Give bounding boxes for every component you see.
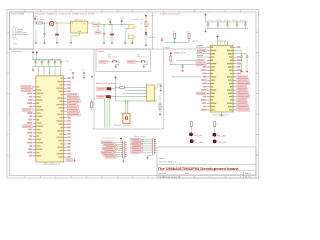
svg-text:+3V3: +3V3 xyxy=(120,18,124,20)
wire crystal power down xyxy=(115,80,117,88)
wire down to C2 xyxy=(56,23,58,34)
switch SW1 xyxy=(112,60,117,62)
vertical wire bus c xyxy=(109,99,111,128)
wire fuse to D1 xyxy=(43,22,50,24)
ground under R osc2 xyxy=(159,113,161,115)
svg-text:4: 4 xyxy=(117,11,118,13)
svg-text:USB Connections: USB Connections xyxy=(161,12,181,15)
svg-text:4: 4 xyxy=(117,177,118,179)
svg-text:TX_LED: TX_LED xyxy=(194,142,204,144)
junction at C4 xyxy=(111,24,112,25)
svg-text:mini USB: mini USB xyxy=(11,13,25,15)
ground far right deco xyxy=(91,76,93,78)
resistor R pullup NRST xyxy=(170,56,172,61)
svg-text:SW_Push: SW_Push xyxy=(108,57,117,59)
section divider horizontal y49 xyxy=(10,48,204,50)
wire usb rail xyxy=(165,41,189,43)
wire to crystal box a xyxy=(124,101,126,113)
resistor R usb2 xyxy=(174,33,176,38)
ground under C2 xyxy=(56,42,58,44)
svg-text:SW_Push: SW_Push xyxy=(137,57,146,59)
wire VBUS to fuse xyxy=(34,21,36,23)
wire deco rail bottom xyxy=(33,66,61,68)
MCU U1 right net labels xyxy=(67,77,70,79)
svg-text:C?: C? xyxy=(246,48,248,50)
wire SWD row2 xyxy=(111,96,114,98)
jumper JP2 xyxy=(128,35,134,39)
wire PWR LED down xyxy=(145,18,147,22)
svg-text:+3V3: +3V3 xyxy=(107,19,111,21)
net label BOOT right xyxy=(196,59,205,62)
svg-text:100n: 100n xyxy=(65,61,69,63)
power flag PWR LED xyxy=(145,15,147,18)
svg-text:U?: U? xyxy=(48,72,50,74)
svg-text:C?: C? xyxy=(82,70,84,72)
wire regulator output xyxy=(88,22,93,24)
section box mini-USB xyxy=(10,12,34,49)
svg-text:C?: C? xyxy=(70,70,72,72)
svg-text:R?: R? xyxy=(162,107,164,109)
wire R_nrst xyxy=(91,99,93,102)
power flag VDD deco xyxy=(32,51,34,54)
border frame inner xyxy=(10,12,257,176)
wire osc row1 xyxy=(116,87,120,89)
svg-text:100n 100n 100n 100n: 100n 100n 100n 100n xyxy=(34,60,60,62)
power flag NRST pullup xyxy=(170,52,172,55)
regulator U2 body xyxy=(71,21,88,33)
wire SW1 to ground xyxy=(118,61,120,63)
svg-text:Left side conn: Left side conn xyxy=(101,137,115,140)
junctions deco rail xyxy=(32,59,33,60)
wire SW1 gnd link xyxy=(116,64,119,66)
junction row y77 xyxy=(172,76,173,77)
svg-text:Id: 1/1: Id: 1/1 xyxy=(245,177,251,179)
svg-text:+3V3: +3V3 xyxy=(150,16,154,18)
net label at U1 bottom xyxy=(66,159,73,162)
MCU U1 right pins xyxy=(64,77,67,79)
svg-text:KiCad E.D.A. kicad 5.1.6: KiCad E.D.A. kicad 5.1.6 xyxy=(159,176,182,179)
svg-text:VBUS: VBUS xyxy=(33,16,39,18)
wire to crystal box b xyxy=(127,101,129,113)
net label BOOT0 at SW2 xyxy=(127,60,136,63)
wire pwr led xyxy=(145,27,147,33)
MCU U3 right pins xyxy=(233,46,236,48)
svg-text:3: 3 xyxy=(86,177,87,179)
wire J3 power xyxy=(120,140,122,143)
LED D2 xyxy=(189,133,193,137)
wire deco rail top xyxy=(32,54,34,59)
ground under JP1 xyxy=(124,42,126,44)
crystal X1 symbol xyxy=(125,116,127,120)
wire JP1 to ground xyxy=(125,28,127,33)
MCU U3 left net labels xyxy=(196,46,207,48)
capacitor C1 xyxy=(43,34,46,35)
fuse F1 xyxy=(37,22,43,24)
svg-text:J?: J? xyxy=(135,27,137,29)
vertical wire bus a xyxy=(104,99,106,128)
connector J1 pin texts xyxy=(17,29,23,30)
svg-text:8MHz crystal: 8MHz crystal xyxy=(114,124,131,127)
svg-text:1k: 1k xyxy=(149,24,151,26)
switch SW2 xyxy=(141,60,146,62)
svg-text:GND: GND xyxy=(13,43,18,45)
resistor R_nrst xyxy=(91,102,93,108)
wire label stub xyxy=(97,26,99,31)
capacitor C4 electrolytic xyxy=(110,33,113,35)
net label NRST right xyxy=(196,63,206,66)
svg-text:3: 3 xyxy=(86,11,87,13)
wire down to C3 xyxy=(103,25,105,34)
svg-text:STM32F103RBTx: STM32F103RBTx xyxy=(43,164,60,166)
net label SWDIO xyxy=(97,87,107,90)
LED D pwr xyxy=(145,32,147,35)
wire flag b down xyxy=(121,23,123,25)
net label NRST at SW1 xyxy=(99,60,108,63)
wire C2 to ground xyxy=(56,35,58,41)
capacitor C osc xyxy=(160,84,162,86)
border frame outer xyxy=(7,10,259,179)
resistor R usb3 xyxy=(188,33,190,38)
wire cap col b xyxy=(236,53,247,55)
svg-text:Boot select: Boot select xyxy=(134,135,147,138)
wire pullup down xyxy=(170,54,172,57)
capacitor C ua xyxy=(240,56,243,57)
wire SW2 to ground xyxy=(146,61,148,63)
wire osc row3 xyxy=(122,93,144,95)
wire BOOT row xyxy=(176,60,196,62)
MCU U1 left net labels xyxy=(21,86,33,89)
power flag VBUS xyxy=(34,18,36,21)
net label below output xyxy=(95,31,101,34)
connector J4 wires xyxy=(141,139,152,141)
wire horizontal y101 xyxy=(116,100,158,102)
regulator ground pin wire xyxy=(78,33,80,36)
svg-text:power sel: power sel xyxy=(133,18,144,21)
wire JP2 to ground xyxy=(131,39,133,42)
wire label to SW2 xyxy=(136,61,141,63)
MCU U1 top power wires xyxy=(38,67,40,76)
wire osc2 xyxy=(159,95,161,104)
power flag J3 xyxy=(120,137,122,140)
ground under C1 xyxy=(43,42,45,44)
wire down to C4 xyxy=(111,25,113,34)
ground under C3 xyxy=(103,42,105,44)
svg-text:File: the_1986.sch: File: the_1986.sch xyxy=(159,161,177,164)
svg-text:USB_OTG: USB_OTG xyxy=(13,38,18,40)
net label +3V3 on output xyxy=(93,23,101,26)
section divider vertical x94 xyxy=(93,49,95,129)
power flag +3V3 a xyxy=(109,21,111,24)
wire osc out xyxy=(155,87,158,89)
svg-text:The 1986A/STM32F00 Development: The 1986A/STM32F00 Development board xyxy=(158,167,239,171)
resistor R osc2 xyxy=(159,104,161,110)
svg-text:Rev: 1: Rev: 1 xyxy=(245,173,252,175)
svg-text:Size: A4: Size: A4 xyxy=(159,172,167,175)
svg-text:8: 8 xyxy=(240,11,241,13)
junction at C2 xyxy=(56,22,57,23)
wire osc row2 xyxy=(125,90,144,92)
power flag right deco xyxy=(205,14,207,17)
MCU U1 bottom wires xyxy=(45,162,47,165)
resistor R led1 xyxy=(190,122,192,127)
resistor R pwrled xyxy=(145,22,147,27)
svg-text:R?: R? xyxy=(120,84,122,86)
resistor R osc xyxy=(120,87,125,89)
ground under C vbat xyxy=(72,77,74,79)
connector J3 header xyxy=(122,141,127,159)
svg-text:Sheet: /: Sheet: / xyxy=(159,157,167,160)
crystal X1 highlight box xyxy=(123,113,130,123)
ground at SW2 xyxy=(143,65,145,67)
wire NRST to MCU xyxy=(171,64,196,66)
ground right of U1 bottom xyxy=(74,158,76,160)
LED D5 xyxy=(213,140,217,144)
svg-text:PWR_LED: PWR_LED xyxy=(194,135,204,137)
MCU U3 top power wires xyxy=(217,38,219,41)
resistor R led2 xyxy=(214,122,216,127)
wire C4 to ground xyxy=(111,35,113,41)
net label SWCLK xyxy=(97,95,106,98)
junction usb3 xyxy=(188,40,189,41)
LED D4 xyxy=(213,133,217,137)
svg-text:J?: J? xyxy=(135,37,137,39)
svg-text:R?: R? xyxy=(141,24,143,26)
svg-text:PWR_LED: PWR_LED xyxy=(148,37,156,39)
junction at C3 xyxy=(103,24,104,25)
MCU U3 body xyxy=(210,45,233,112)
connector J1 body xyxy=(12,28,16,38)
wire label to SW1 xyxy=(108,61,112,63)
ground under VBUS input xyxy=(35,30,37,42)
svg-text:Date:: Date: xyxy=(185,172,190,175)
MCU U3 power flag xyxy=(217,35,219,38)
svg-text:8: 8 xyxy=(240,177,241,179)
capacitor C2 electrolytic xyxy=(55,34,58,36)
svg-text:6: 6 xyxy=(178,11,179,13)
svg-text:MCU and support: MCU and support xyxy=(12,50,23,53)
capacitor C usb xyxy=(161,39,164,40)
svg-text:F? 500mA: F? 500mA xyxy=(37,18,45,21)
ground deco rail xyxy=(32,69,34,71)
wire J1 ID line xyxy=(13,33,28,35)
wire crystal power stub xyxy=(115,88,117,102)
svg-text:RX_LED: RX_LED xyxy=(217,136,227,138)
power flag +3V3 b xyxy=(121,20,123,23)
wire D1 to regulator xyxy=(54,22,71,24)
wire C1 to ground xyxy=(44,35,46,42)
ground under regulator xyxy=(70,42,72,44)
connector J4 net labels xyxy=(131,138,141,141)
svg-text:USB_DP: USB_DP xyxy=(192,41,199,43)
wire SWD row1 xyxy=(111,88,115,90)
svg-text:MCU: MCU xyxy=(174,53,186,55)
svg-text:100n 100n 100n 100n 100n: 100n 100n 100n 100n 100n xyxy=(207,20,247,22)
svg-text:2: 2 xyxy=(55,11,56,13)
svg-text:Buttons: Buttons xyxy=(97,50,104,53)
wire row y77 xyxy=(173,76,207,78)
section box buttons xyxy=(96,49,151,72)
svg-text:5: 5 xyxy=(148,11,149,13)
decoupling capacitors C5-C9 xyxy=(35,59,37,62)
svg-text:2: 2 xyxy=(55,177,56,179)
svg-text:7: 7 xyxy=(209,177,210,179)
MCU U3 left pins xyxy=(207,46,210,48)
ground under JP2 xyxy=(131,42,133,44)
MCU U1 left pins xyxy=(33,86,36,88)
ground pwr led xyxy=(145,44,147,46)
ground under J4 xyxy=(151,155,153,156)
ground under C nrst xyxy=(181,70,183,72)
wire osc row4 xyxy=(114,96,119,98)
svg-text:5: 5 xyxy=(148,177,149,179)
title block box xyxy=(157,147,256,178)
diode D1 circled xyxy=(50,22,54,26)
svg-text:AMS1117-3.3: AMS1117-3.3 xyxy=(75,18,87,21)
capacitor C nrst xyxy=(181,66,184,67)
wire C3 to ground xyxy=(103,35,105,42)
ground under U3 xyxy=(221,112,223,114)
power flag crystal xyxy=(115,76,117,79)
connector J4 header xyxy=(151,138,156,155)
svg-text:7: 7 xyxy=(209,11,210,13)
svg-text:R?: R? xyxy=(193,124,195,126)
svg-text:USR_LED: USR_LED xyxy=(217,142,227,144)
frame reference ticks xyxy=(7,10,259,179)
vertical wire bus b xyxy=(106,99,108,128)
junction at C1 xyxy=(44,22,45,23)
wire cap col a xyxy=(236,50,241,52)
svg-text:D?: D? xyxy=(50,18,52,20)
wire right deco bottom xyxy=(206,28,249,30)
section divider horizontal y129 xyxy=(92,128,164,130)
svg-text:Power supplies: converts USB 5: Power supplies: converts USB 5V to 3.3V xyxy=(36,12,96,15)
svg-text:C?: C? xyxy=(239,48,241,50)
ground at SW1 xyxy=(115,65,117,67)
capacitor C ub xyxy=(246,56,249,57)
connector J3 left wires xyxy=(113,141,122,143)
junction SWD xyxy=(110,98,111,99)
wire right deco rail xyxy=(205,17,207,22)
ground under C4 xyxy=(111,42,113,44)
label above ID line xyxy=(15,32,27,33)
capacitor C3 xyxy=(103,34,106,35)
oscillator Y1 body xyxy=(147,85,155,101)
connector J3 left net labels xyxy=(101,141,113,144)
ground under J3 xyxy=(122,159,124,160)
LED D3 xyxy=(190,139,194,143)
oscillator Y1 pins xyxy=(144,87,147,89)
jumper JP1 xyxy=(128,25,134,29)
ground right deco xyxy=(204,30,206,32)
svg-text:1: 1 xyxy=(24,11,25,13)
MCU U1 body xyxy=(36,76,64,162)
wire down to C1 xyxy=(44,23,46,34)
MCU U3 right net labels xyxy=(237,46,240,48)
section divider vertical x164 xyxy=(163,49,165,129)
junction under flag a xyxy=(110,24,111,25)
svg-text:1: 1 xyxy=(24,177,25,179)
section divider vertical x152 xyxy=(151,12,153,49)
svg-text:R?: R? xyxy=(217,124,219,126)
decoupling capacitors right xyxy=(207,21,208,22)
svg-text:8MHz crystal oscillator: 8MHz crystal oscillator xyxy=(96,82,115,85)
ground under C nrst2 xyxy=(83,77,85,79)
